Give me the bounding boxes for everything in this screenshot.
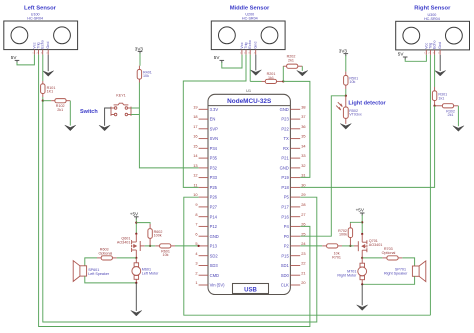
- svg-text:P19: P19: [281, 175, 289, 180]
- svg-text:3V3: 3V3: [135, 46, 144, 51]
- svg-text:23: 23: [301, 251, 305, 256]
- svg-text:P35: P35: [210, 156, 218, 161]
- svg-text:+5V: +5V: [130, 211, 139, 216]
- svg-text:19: 19: [193, 104, 197, 109]
- svg-text:P16: P16: [281, 214, 289, 219]
- svg-text:13: 13: [193, 163, 197, 168]
- svg-text:KEY1: KEY1: [116, 93, 125, 97]
- svg-text:1: 1: [195, 280, 197, 285]
- svg-text:2k1: 2k1: [448, 113, 454, 117]
- svg-text:17: 17: [193, 124, 197, 129]
- svg-text:1K1: 1K1: [47, 90, 54, 94]
- svg-text:Left Sensor: Left Sensor: [24, 6, 57, 12]
- svg-text:NodeMCU-32S: NodeMCU-32S: [227, 98, 272, 105]
- svg-text:Left Motor: Left Motor: [142, 271, 159, 275]
- svg-text:10k: 10k: [349, 80, 355, 84]
- svg-text:Switch: Switch: [80, 109, 98, 115]
- svg-text:28: 28: [301, 202, 305, 207]
- svg-text:32: 32: [301, 163, 305, 168]
- svg-text:2: 2: [195, 270, 197, 275]
- svg-text:37: 37: [301, 114, 305, 119]
- svg-text:33: 33: [301, 153, 305, 158]
- svg-text:2k1: 2k1: [288, 58, 294, 62]
- svg-text:10k: 10k: [163, 253, 169, 257]
- svg-text:8: 8: [195, 212, 197, 217]
- svg-text:USB: USB: [244, 288, 257, 294]
- svg-text:P12: P12: [210, 224, 218, 229]
- svg-text:CMD: CMD: [210, 273, 219, 278]
- svg-text:RX: RX: [283, 146, 289, 151]
- svg-text:U1: U1: [246, 88, 252, 93]
- svg-text:29: 29: [301, 192, 305, 197]
- svg-text:18: 18: [193, 114, 197, 119]
- svg-text:5V: 5V: [11, 55, 18, 60]
- svg-text:P27: P27: [210, 205, 218, 210]
- svg-text:5V: 5V: [398, 52, 405, 57]
- svg-text:21: 21: [301, 270, 305, 275]
- svg-text:Left Speaker: Left Speaker: [88, 272, 110, 276]
- svg-text:P32: P32: [210, 166, 218, 171]
- svg-text:Middle Sensor: Middle Sensor: [230, 6, 270, 12]
- svg-text:R701: R701: [332, 255, 341, 259]
- svg-text:P17: P17: [281, 205, 289, 210]
- svg-text:SD1: SD1: [281, 263, 290, 268]
- svg-text:3V3: 3V3: [339, 48, 348, 53]
- svg-text:Right Sensor: Right Sensor: [414, 6, 451, 12]
- svg-text:1k1: 1k1: [268, 76, 274, 80]
- svg-text:11: 11: [194, 183, 198, 188]
- svg-text:6: 6: [195, 231, 197, 236]
- svg-text:100k: 100k: [339, 233, 347, 237]
- svg-text:P13: P13: [210, 244, 218, 249]
- svg-text:SVP: SVP: [210, 126, 219, 131]
- svg-text:P5: P5: [284, 195, 290, 200]
- svg-text:Optional: Optional: [382, 251, 396, 255]
- svg-text:36: 36: [301, 124, 305, 129]
- svg-text:SD0: SD0: [281, 273, 290, 278]
- svg-text:TX: TX: [284, 136, 290, 141]
- svg-text:22: 22: [301, 261, 305, 266]
- svg-text:Right Speaker: Right Speaker: [384, 272, 408, 276]
- svg-text:HC-SR04: HC-SR04: [242, 17, 258, 21]
- svg-text:Vin (5V): Vin (5V): [210, 283, 226, 288]
- svg-text:Light detector: Light detector: [348, 101, 386, 107]
- svg-text:P18: P18: [281, 185, 289, 190]
- svg-text:15: 15: [193, 143, 197, 148]
- svg-text:P15: P15: [281, 253, 289, 258]
- svg-text:1k1: 1k1: [438, 96, 444, 100]
- svg-text:2k1: 2k1: [57, 108, 63, 112]
- svg-text:26: 26: [301, 222, 305, 227]
- svg-text:5V: 5V: [214, 55, 221, 60]
- svg-text:GND: GND: [210, 234, 219, 239]
- svg-text:31: 31: [301, 173, 305, 178]
- svg-text:+5V: +5V: [356, 207, 365, 212]
- svg-text:P2: P2: [284, 244, 290, 249]
- svg-text:SD3: SD3: [210, 263, 219, 268]
- svg-text:GND: GND: [280, 166, 289, 171]
- svg-text:100k: 100k: [154, 234, 162, 238]
- svg-text:9: 9: [195, 202, 197, 207]
- svg-text:P4: P4: [284, 224, 290, 229]
- svg-text:P26: P26: [210, 195, 218, 200]
- svg-text:P21: P21: [281, 156, 289, 161]
- svg-text:P34: P34: [210, 146, 218, 151]
- svg-text:HC-SR04: HC-SR04: [424, 17, 440, 21]
- svg-text:Optional: Optional: [99, 251, 113, 255]
- svg-text:25: 25: [301, 231, 305, 236]
- svg-text:P33: P33: [210, 175, 218, 180]
- svg-text:GND: GND: [280, 107, 289, 112]
- svg-text:10k: 10k: [143, 74, 149, 78]
- svg-text:Right Motor: Right Motor: [337, 273, 357, 277]
- svg-text:HC-SR04: HC-SR04: [27, 17, 43, 21]
- svg-text:SVN: SVN: [210, 136, 219, 141]
- svg-text:P14: P14: [210, 214, 218, 219]
- svg-text:12: 12: [193, 173, 197, 178]
- svg-text:27: 27: [301, 212, 305, 217]
- svg-text:P22: P22: [281, 126, 289, 131]
- svg-text:7: 7: [195, 222, 197, 227]
- svg-text:AO3401: AO3401: [117, 240, 131, 244]
- svg-text:CLK: CLK: [281, 283, 289, 288]
- svg-text:VT93xx: VT93xx: [349, 112, 362, 116]
- svg-text:P25: P25: [210, 185, 218, 190]
- svg-text:3: 3: [195, 261, 197, 266]
- svg-text:P0: P0: [284, 234, 290, 239]
- svg-text:3.3V: 3.3V: [210, 107, 219, 112]
- svg-text:P23: P23: [281, 117, 289, 122]
- svg-text:EN: EN: [210, 117, 216, 122]
- svg-text:AO3401: AO3401: [369, 243, 383, 247]
- svg-text:38: 38: [301, 104, 305, 109]
- svg-text:SD2: SD2: [210, 253, 219, 258]
- svg-text:5: 5: [195, 241, 197, 246]
- svg-text:35: 35: [301, 134, 305, 139]
- svg-text:16: 16: [193, 134, 197, 139]
